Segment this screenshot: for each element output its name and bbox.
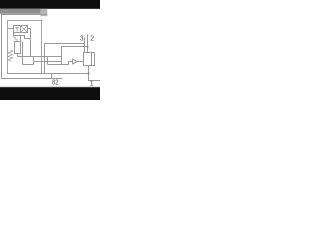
- junction dot B: [87, 72, 89, 74]
- light gray tab: [41, 9, 48, 16]
- wire row73.5: [8, 73, 89, 75]
- pilot line into valve: [77, 61, 83, 63]
- wire from drain box: [28, 29, 31, 57]
- inlet wire: [8, 28, 14, 30]
- regulator double line: [22, 42, 24, 65]
- wire v47.5: [47, 57, 49, 65]
- frame top wire: [1, 14, 47, 16]
- filter drain stem: [16, 30, 18, 32]
- pilot triangle: [73, 59, 78, 64]
- wire row61.5: [34, 61, 62, 63]
- wire row57: [18, 56, 62, 58]
- box right edge extension: [20, 36, 22, 42]
- valve outlet wire: [88, 66, 90, 74]
- port1 wire: [89, 74, 101, 81]
- junction dot A: [86, 45, 88, 47]
- drop wire v33.5: [33, 57, 35, 65]
- frame left wire: [1, 14, 3, 79]
- frame bottom wire: [1, 78, 63, 80]
- port3 wire: [84, 38, 86, 53]
- filter triangle: [16, 27, 19, 30]
- bottom black bar: [0, 88, 100, 101]
- valve spring compartment: [92, 53, 95, 66]
- valve box V1: [84, 53, 92, 66]
- wire row43.5 port3: [45, 43, 85, 45]
- enclosure box U1: [8, 21, 42, 74]
- gray header block: [0, 9, 41, 14]
- svg-text:1: 1: [90, 80, 94, 87]
- step wire to regulator: [14, 36, 31, 39]
- regulator R1: [15, 42, 21, 54]
- regulator outlet: [17, 54, 19, 57]
- wire pilot row64.5 left: [23, 64, 34, 66]
- spring: [8, 50, 12, 61]
- wire row46.5 port2: [62, 46, 88, 48]
- svg-text:2: 2: [90, 36, 94, 43]
- wire v61.5: [61, 47, 63, 65]
- wire row64.5 right: [48, 62, 73, 65]
- port2 wire: [87, 35, 89, 53]
- svg-text:82: 82: [52, 79, 59, 86]
- drain box F2 with X: [21, 26, 28, 33]
- filter box F1: [14, 26, 21, 33]
- port82 drop wire: [51, 74, 53, 79]
- box1 outlet stub: [13, 33, 15, 36]
- wire v44.5: [44, 44, 46, 74]
- regulator feed diagonal: [13, 36, 17, 41]
- svg-text:3: 3: [80, 36, 84, 43]
- top black bar: [0, 0, 100, 9]
